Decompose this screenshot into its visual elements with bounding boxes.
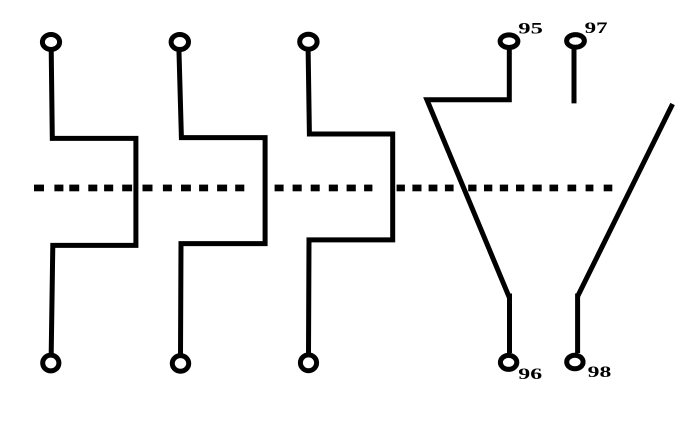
svg-text:95: 95 [518,20,543,37]
svg-text:96: 96 [518,366,542,383]
svg-text:97: 97 [585,20,608,37]
svg-text:98: 98 [588,364,612,381]
